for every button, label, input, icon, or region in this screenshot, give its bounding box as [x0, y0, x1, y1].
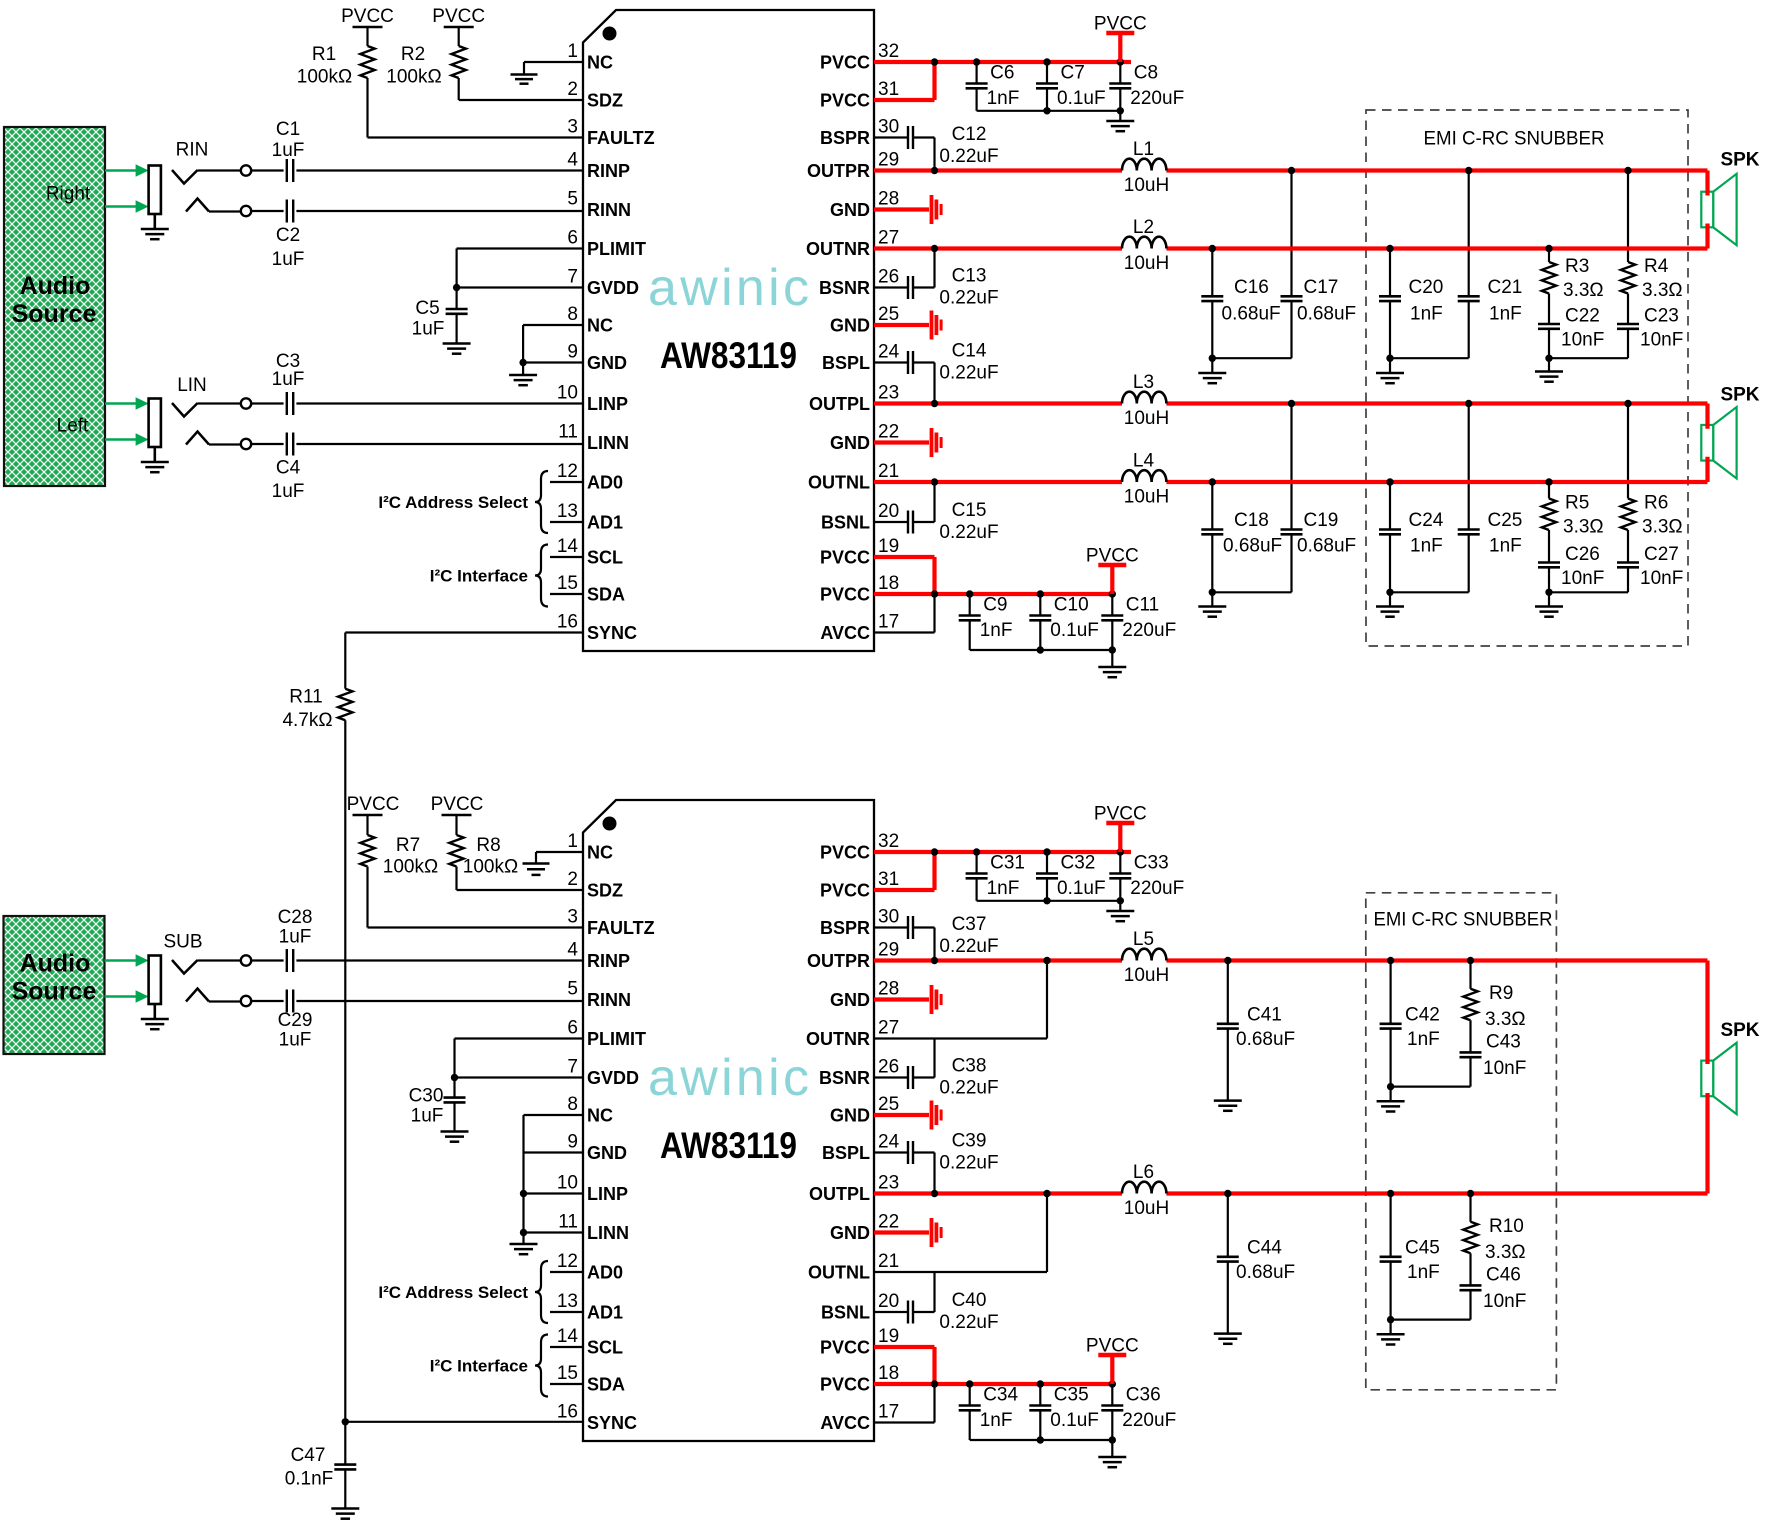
wire SYNC bottom IC: [342, 1418, 583, 1425]
ground GND pin red (row 7): [874, 311, 941, 340]
ground below C5: [443, 342, 471, 345]
svg-text:6: 6: [567, 228, 578, 249]
svg-text:0.22uF: 0.22uF: [939, 522, 998, 543]
svg-text:24: 24: [878, 342, 900, 363]
svg-text:3.3Ω: 3.3Ω: [1642, 517, 1683, 538]
green arrow sub-: [105, 995, 138, 998]
junction dots OUTPR: [931, 167, 1632, 174]
svg-text:awinic: awinic: [648, 1049, 809, 1107]
svg-text:C44: C44: [1247, 1237, 1282, 1258]
power flag PVCC above R1: [341, 6, 394, 27]
svg-text:8: 8: [567, 1094, 578, 1115]
svg-text:3: 3: [567, 117, 578, 138]
svg-text:AD1: AD1: [587, 1303, 623, 1323]
svg-text:L4: L4: [1133, 451, 1155, 472]
svg-text:L2: L2: [1133, 217, 1154, 238]
svg-text:C47: C47: [291, 1445, 326, 1466]
svg-text:2: 2: [567, 79, 578, 100]
svg-text:30: 30: [878, 117, 899, 138]
svg-text:BSPL: BSPL: [822, 353, 870, 373]
svg-text:AVCC: AVCC: [820, 1413, 870, 1433]
wire bottom rail R5-R6 caps: [1545, 589, 1628, 606]
svg-text:BSNR: BSNR: [819, 278, 870, 298]
svg-text:OUTNR: OUTNR: [806, 1029, 870, 1049]
wire bottom rail R3-R4 caps: [1545, 355, 1628, 371]
svg-text:Left: Left: [57, 416, 89, 437]
svg-text:0.68uF: 0.68uF: [1222, 304, 1281, 325]
svg-text:20: 20: [878, 1291, 899, 1312]
capacitor C22 10nF: [1538, 294, 1604, 359]
ground below C18: [1198, 605, 1226, 608]
svg-text:11: 11: [558, 1212, 578, 1233]
svg-text:C8: C8: [1134, 63, 1158, 84]
ground below C30: [441, 1130, 469, 1133]
svg-text:1: 1: [567, 41, 578, 62]
svg-text:0.22uF: 0.22uF: [939, 146, 998, 167]
svg-text:17: 17: [878, 1402, 899, 1423]
svg-text:23: 23: [878, 1173, 899, 1194]
svg-text:1nF: 1nF: [980, 620, 1013, 641]
wire C1 to IC: [296, 169, 583, 171]
wire pin1 NC to ground: [524, 62, 583, 74]
capacitor C9 1nF: [959, 594, 1013, 650]
svg-text:C13: C13: [952, 266, 987, 287]
svg-text:I²C Interface: I²C Interface: [430, 567, 528, 586]
ground below C8: [1106, 120, 1134, 123]
svg-text:C33: C33: [1134, 853, 1169, 874]
wire bottom rail C20-C21: [1386, 355, 1468, 373]
svg-text:R1: R1: [312, 44, 336, 65]
svg-text:L6: L6: [1133, 1162, 1154, 1183]
svg-text:I²C Address Select: I²C Address Select: [378, 493, 528, 512]
IC U2 left pin names and numbers: [557, 831, 655, 1433]
svg-text:PVCC: PVCC: [347, 794, 400, 815]
svg-text:SUB: SUB: [163, 932, 202, 953]
svg-text:0.22uF: 0.22uF: [939, 936, 998, 957]
svg-text:GND: GND: [830, 1106, 870, 1126]
speaker SPK left channel: [1701, 385, 1760, 479]
capacitor C14 bootstrap: [874, 341, 999, 404]
svg-text:C5: C5: [415, 298, 439, 319]
svg-text:24: 24: [878, 1132, 900, 1153]
svg-text:1uF: 1uF: [272, 249, 305, 270]
svg-text:BSPL: BSPL: [822, 1143, 870, 1163]
svg-text:OUTPL: OUTPL: [809, 394, 870, 414]
svg-text:19: 19: [878, 1326, 899, 1347]
svg-text:SCL: SCL: [587, 548, 623, 568]
svg-text:PVCC: PVCC: [432, 6, 485, 27]
capacitor C23 10nF: [1617, 294, 1683, 359]
capacitor C24 1nF: [1379, 482, 1444, 592]
svg-text:100kΩ: 100kΩ: [383, 857, 438, 878]
junction dots OUTNR: [931, 245, 1553, 252]
capacitor C42 1nF: [1380, 961, 1440, 1087]
I2C Address Select brace (bottom): [378, 1261, 583, 1323]
svg-text:27: 27: [878, 1018, 899, 1039]
I2C Interface brace (top): [430, 545, 583, 607]
green arrow right+: [105, 169, 138, 172]
svg-text:PLIMIT: PLIMIT: [587, 239, 646, 259]
capacitor C33 220uF: [1109, 852, 1184, 910]
svg-text:OUTPR: OUTPR: [807, 161, 870, 181]
svg-text:OUTPL: OUTPL: [809, 1184, 870, 1204]
svg-text:1nF: 1nF: [1410, 304, 1443, 325]
ground GND pin red (row 4): [874, 195, 941, 224]
svg-text:LIN: LIN: [177, 375, 207, 396]
wire bottom rail C16-C17: [1209, 355, 1292, 373]
capacitor C21 1nF: [1458, 171, 1523, 359]
junction dots OUTNL: [931, 478, 1553, 485]
svg-text:1uF: 1uF: [272, 481, 305, 502]
svg-text:GND: GND: [830, 433, 870, 453]
IC U2 AW83119 body: [583, 800, 874, 1441]
capacitor C20 1nF: [1379, 249, 1443, 359]
svg-text:RINN: RINN: [587, 990, 631, 1010]
wire OUTNR black jog (pin27 bottom): [874, 961, 1047, 1039]
resistor R2 100k: [386, 27, 466, 100]
svg-text:3.3Ω: 3.3Ω: [1563, 517, 1604, 538]
green arrow left-: [105, 438, 138, 441]
junction dots rail C6-C8: [973, 58, 1124, 65]
capacitor C31 1nF: [966, 852, 1025, 901]
svg-text:SYNC: SYNC: [587, 1413, 637, 1433]
svg-text:C4: C4: [276, 458, 301, 479]
resistor R9 3.3ohm: [1463, 961, 1525, 1031]
inductor L6 10uH: [1122, 1162, 1169, 1219]
wire PLIMIT to GVDD: [453, 249, 583, 292]
svg-text:C14: C14: [952, 341, 987, 362]
svg-text:C11: C11: [1126, 595, 1159, 616]
ground below C22: [1535, 370, 1563, 373]
svg-text:10uH: 10uH: [1124, 487, 1169, 508]
capacitor C5 1uF: [412, 288, 468, 343]
svg-text:22: 22: [878, 1212, 899, 1233]
wire C28 to IC: [296, 959, 583, 961]
ground below C36: [1098, 1456, 1126, 1459]
svg-text:OUTPR: OUTPR: [807, 951, 870, 971]
svg-text:SDA: SDA: [587, 585, 625, 605]
svg-text:14: 14: [557, 1326, 579, 1347]
IC U2 right pin names and numbers: [806, 831, 900, 1433]
I2C Interface brace (bottom): [430, 1335, 583, 1397]
svg-text:1nF: 1nF: [987, 878, 1020, 899]
capacitor C11 220uF: [1101, 594, 1176, 666]
svg-text:0.1uF: 0.1uF: [1050, 1410, 1099, 1431]
svg-text:C30: C30: [409, 1086, 444, 1107]
svg-text:C36: C36: [1126, 1385, 1161, 1406]
svg-text:SPK: SPK: [1720, 150, 1759, 171]
svg-text:220uF: 220uF: [1122, 1410, 1176, 1431]
svg-text:SDZ: SDZ: [587, 91, 623, 111]
capacitor C16 0.68uF: [1201, 249, 1280, 359]
wire C3 to IC: [296, 402, 583, 404]
capacitor C15 bootstrap: [874, 482, 999, 543]
svg-text:C34: C34: [983, 1385, 1018, 1406]
svg-text:14: 14: [557, 536, 579, 557]
svg-text:FAULTZ: FAULTZ: [587, 128, 655, 148]
svg-text:1: 1: [567, 831, 578, 852]
svg-text:NC: NC: [587, 1106, 613, 1126]
svg-text:0.22uF: 0.22uF: [939, 1312, 998, 1333]
svg-text:0.68uF: 0.68uF: [1297, 535, 1356, 556]
capacitor C29: [251, 990, 312, 1051]
svg-text:10uH: 10uH: [1124, 408, 1169, 429]
svg-text:R2: R2: [401, 44, 425, 65]
svg-text:GND: GND: [830, 990, 870, 1010]
svg-text:C1: C1: [276, 119, 300, 140]
wire SYNC top IC: [345, 631, 583, 633]
wire OUTNL black jog (pin21 bottom): [874, 1194, 1047, 1273]
svg-text:C10: C10: [1054, 595, 1089, 616]
capacitor C40 bootstrap: [874, 1272, 999, 1333]
svg-text:GND: GND: [830, 1223, 870, 1243]
wire PVCC pins 19-18 red: [874, 557, 1112, 598]
svg-text:15: 15: [557, 1363, 578, 1384]
wire pins 8-11 NC GND LINP LINN chain: [520, 1115, 583, 1243]
wire OUTPR red (pin29): [874, 171, 1708, 196]
junction dots OUTPR bottom: [931, 957, 1474, 964]
svg-text:AD1: AD1: [587, 513, 623, 533]
wire FAULTZ to R7: [368, 926, 584, 928]
capacitor C38 bootstrap: [874, 1039, 999, 1099]
svg-text:NC: NC: [587, 316, 613, 336]
power flag PVCC at C8: [1094, 14, 1147, 63]
capacitor C47 0.1nF: [285, 1422, 357, 1508]
svg-text:LINN: LINN: [587, 433, 629, 453]
svg-text:10nF: 10nF: [1640, 330, 1683, 351]
svg-text:R5: R5: [1565, 493, 1589, 514]
inductor L2 10uH: [1122, 217, 1169, 274]
svg-text:2: 2: [567, 869, 578, 890]
svg-text:1nF: 1nF: [1489, 304, 1522, 325]
wire bottom rail C6-C8: [977, 107, 1124, 114]
ground below C24: [1376, 605, 1404, 608]
svg-text:R3: R3: [1565, 256, 1589, 277]
wire OUTPL red (pin23): [874, 404, 1708, 429]
inductor L3 10uH: [1122, 372, 1169, 429]
svg-text:LINP: LINP: [587, 394, 628, 414]
resistor R1 100k: [297, 27, 375, 138]
junction dots rail C34-C36: [966, 1380, 1116, 1387]
junction dots OUTPL: [931, 400, 1632, 407]
svg-text:10nF: 10nF: [1483, 1058, 1526, 1079]
svg-text:LINP: LINP: [587, 1184, 628, 1204]
svg-text:AD0: AD0: [587, 473, 623, 493]
svg-text:GND: GND: [587, 1143, 627, 1163]
svg-text:R9: R9: [1489, 983, 1513, 1004]
svg-text:1nF: 1nF: [1489, 535, 1522, 556]
wire AVCC pin17: [874, 594, 935, 633]
svg-text:PVCC: PVCC: [820, 843, 870, 863]
wire pin8 NC to pin9 GND: [519, 325, 583, 374]
svg-text:PVCC: PVCC: [820, 1338, 870, 1358]
svg-text:1nF: 1nF: [1410, 535, 1443, 556]
capacitor C1: [251, 119, 304, 182]
capacitor C30 1uF: [409, 1078, 466, 1131]
svg-text:C43: C43: [1486, 1032, 1521, 1053]
resistor R5 3.3ohm: [1542, 482, 1604, 538]
svg-text:18: 18: [878, 1363, 899, 1384]
inductor L1 10uH: [1122, 139, 1169, 196]
svg-text:28: 28: [878, 189, 899, 210]
svg-text:PVCC: PVCC: [820, 1375, 870, 1395]
wire OUTNR red (pin27): [874, 224, 1708, 249]
wire bottom rail C34-C36: [970, 1436, 1116, 1443]
svg-text:10nF: 10nF: [1561, 568, 1604, 589]
capacitor C36 220uF: [1101, 1384, 1176, 1456]
ground below C20: [1376, 372, 1404, 375]
wire C29 to IC: [296, 1000, 583, 1002]
wire C2 to IC: [296, 210, 583, 212]
svg-text:L1: L1: [1133, 139, 1154, 160]
ground GND pin red (bottom row 4): [874, 985, 941, 1014]
resistor R11 4.7k: [282, 633, 352, 1422]
svg-text:1nF: 1nF: [1407, 1262, 1440, 1283]
ground at pin1 (top): [511, 73, 538, 76]
ground below pin9 (top): [509, 374, 537, 377]
svg-text:7: 7: [567, 267, 578, 288]
wire PVCC pins 19-18 red (bottom): [874, 1347, 1112, 1388]
svg-text:GND: GND: [587, 353, 627, 373]
resistor R10 3.3ohm: [1463, 1194, 1525, 1264]
capacitor C43 10nF: [1460, 1020, 1527, 1086]
svg-text:SYNC: SYNC: [587, 623, 637, 643]
capacitor C41 0.68uF: [1217, 961, 1295, 1101]
svg-text:1uF: 1uF: [279, 927, 312, 948]
svg-text:PVCC: PVCC: [820, 91, 870, 111]
svg-text:OUTNL: OUTNL: [808, 473, 870, 493]
svg-text:Source: Source: [12, 300, 97, 328]
svg-text:C25: C25: [1488, 510, 1523, 531]
wire bottom rail C24-C25: [1386, 589, 1468, 606]
capacitor C45 1nF: [1380, 1194, 1440, 1320]
wire OUTPR red (bottom pin29): [874, 961, 1708, 1065]
svg-text:0.68uF: 0.68uF: [1236, 1029, 1295, 1050]
svg-text:PVCC: PVCC: [341, 6, 394, 27]
svg-text:C21: C21: [1488, 277, 1523, 298]
IC U1 right pin names and numbers: [806, 41, 900, 643]
svg-text:L3: L3: [1133, 372, 1154, 393]
capacitor C32 0.1uF: [1036, 852, 1106, 901]
svg-text:C19: C19: [1304, 510, 1339, 531]
svg-text:I²C Address Select: I²C Address Select: [378, 1283, 528, 1302]
svg-text:10: 10: [557, 383, 578, 404]
svg-text:BSPR: BSPR: [820, 128, 870, 148]
ground GND pin red (bottom row 7): [874, 1101, 941, 1130]
resistor R8 100k: [449, 815, 518, 890]
svg-text:RINP: RINP: [587, 161, 630, 181]
svg-text:C45: C45: [1405, 1237, 1440, 1258]
svg-text:17: 17: [878, 612, 899, 633]
svg-text:SDA: SDA: [587, 1375, 625, 1395]
wire bottom rail C31-C33: [977, 897, 1124, 904]
svg-text:Audio: Audio: [20, 950, 91, 978]
svg-text:R6: R6: [1644, 493, 1668, 514]
svg-text:10uH: 10uH: [1124, 175, 1169, 196]
audio source box (top): [4, 127, 105, 486]
svg-text:25: 25: [878, 1094, 899, 1115]
svg-text:21: 21: [878, 461, 899, 482]
capacitor C35 0.1uF: [1029, 1384, 1099, 1440]
svg-text:20: 20: [878, 501, 899, 522]
wire bottom rail C18-C19: [1209, 589, 1292, 606]
svg-text:220uF: 220uF: [1130, 88, 1184, 109]
capacitor C17 0.68uF: [1281, 171, 1357, 359]
power flag PVCC at C33: [1094, 804, 1147, 853]
capacitor C4: [251, 433, 304, 503]
svg-text:C29: C29: [278, 1010, 313, 1031]
svg-text:0.1uF: 0.1uF: [1057, 878, 1106, 899]
svg-text:RINN: RINN: [587, 200, 631, 220]
svg-text:NC: NC: [587, 53, 613, 73]
wire PLIMIT to GVDD (bottom): [451, 1039, 583, 1082]
wire PVCC pins 32-31 red: [874, 58, 1131, 100]
svg-text:C40: C40: [952, 1290, 987, 1311]
svg-text:100kΩ: 100kΩ: [463, 857, 518, 878]
svg-text:1nF: 1nF: [987, 88, 1020, 109]
svg-text:C28: C28: [278, 907, 313, 928]
capacitor C10 0.1uF: [1029, 594, 1099, 650]
svg-text:PVCC: PVCC: [820, 585, 870, 605]
svg-text:L5: L5: [1133, 929, 1154, 950]
svg-text:C20: C20: [1409, 277, 1444, 298]
ground below C42: [1377, 1100, 1405, 1103]
svg-text:C35: C35: [1054, 1385, 1089, 1406]
capacitor C8 220uF: [1109, 62, 1184, 120]
junction dots rail C31-C33: [973, 848, 1124, 855]
svg-text:C42: C42: [1405, 1004, 1440, 1025]
wire FAULTZ to R1: [368, 136, 584, 138]
svg-text:18: 18: [878, 573, 899, 594]
ground below C44: [1214, 1332, 1242, 1335]
svg-text:0.1uF: 0.1uF: [1050, 620, 1099, 641]
wire OUTNL red (pin21): [874, 457, 1708, 482]
svg-text:32: 32: [878, 831, 899, 852]
svg-text:C41: C41: [1247, 1004, 1282, 1025]
speaker SPK subwoofer: [1701, 1020, 1760, 1114]
capacitor C3: [251, 351, 304, 415]
svg-text:29: 29: [878, 150, 899, 171]
capacitor C6 1nF: [966, 62, 1020, 111]
svg-text:28: 28: [878, 979, 899, 1000]
svg-text:0.1uF: 0.1uF: [1057, 88, 1106, 109]
svg-text:25: 25: [878, 304, 899, 325]
svg-text:R7: R7: [396, 835, 420, 856]
svg-text:0.22uF: 0.22uF: [939, 288, 998, 309]
svg-text:C2: C2: [276, 225, 300, 246]
svg-text:EMI C-RC SNUBBER: EMI C-RC SNUBBER: [1424, 129, 1605, 150]
svg-text:Audio: Audio: [20, 272, 91, 300]
wire bottom rail C42-C43: [1387, 1083, 1471, 1101]
speaker SPK right channel: [1701, 150, 1760, 246]
capacitor C13 bootstrap: [874, 249, 999, 309]
svg-text:BSNR: BSNR: [819, 1068, 870, 1088]
svg-text:31: 31: [878, 869, 899, 890]
svg-text:13: 13: [557, 501, 578, 522]
power flag PVCC at C11: [1086, 546, 1139, 595]
IC U1 AW83119 body: [583, 10, 874, 651]
svg-text:Right: Right: [46, 184, 91, 205]
ground GND pin red (row 10): [874, 428, 941, 457]
svg-text:13: 13: [557, 1291, 578, 1312]
wire pin1 NC to ground (bottom): [536, 852, 583, 863]
svg-text:PLIMIT: PLIMIT: [587, 1029, 646, 1049]
svg-text:Source: Source: [12, 978, 97, 1006]
junction dots OUTPL bottom: [931, 1190, 1474, 1197]
svg-text:16: 16: [557, 612, 578, 633]
junction dots rail C9-C11: [966, 590, 1116, 597]
svg-text:16: 16: [557, 1402, 578, 1423]
